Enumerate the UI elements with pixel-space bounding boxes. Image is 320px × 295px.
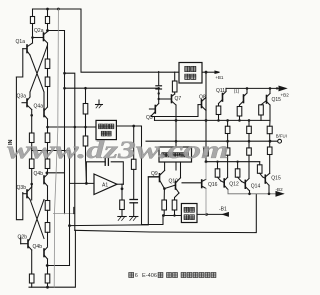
resistor R6a — [45, 133, 50, 143]
svg-text:Q12: Q12 — [229, 182, 239, 188]
box constant voltage supply — [179, 63, 202, 84]
node top rail dot 1 — [46, 8, 49, 11]
capacitor/diode chain x158.7 — [158, 72, 160, 86]
box output protection — [181, 204, 197, 223]
node top rail dot 2 — [57, 8, 60, 11]
svg-text:E-406: E-406 — [142, 273, 157, 279]
resistor R18 x261 — [259, 105, 264, 115]
wire op-amp input — [70, 182, 94, 184]
wire -B2 rail y193.8 — [228, 190, 278, 194]
transistor Q9 — [159, 174, 161, 182]
wire bus A — [64, 31, 66, 214]
resistor R4a — [45, 77, 50, 87]
svg-text:Q11: Q11 — [216, 88, 225, 94]
svg-text:Q14: Q14 — [251, 184, 261, 190]
transistor Q1b — [43, 249, 45, 257]
resistor R22 x237.6 — [236, 161, 238, 163]
wire op-amp output — [117, 183, 123, 185]
resistor R23 x259.7 — [259, 162, 261, 165]
wire box out — [116, 126, 163, 225]
box protection sampling — [159, 147, 192, 162]
wire top rail — [33, 9, 180, 72]
resistor R11 — [131, 159, 136, 169]
node Q2a collector — [46, 29, 49, 32]
wire mid rail y120.4 — [155, 119, 271, 121]
capacitor C1 feedback — [104, 158, 106, 165]
wire to box4 — [163, 215, 181, 217]
node +B1 arrow — [215, 71, 220, 73]
resistor R10 below node — [83, 136, 88, 146]
wire bus C x75.5 — [65, 73, 75, 230]
transistor Q7 — [171, 95, 173, 103]
wire emitter junction to bus B — [47, 265, 69, 267]
transistor Q1a — [26, 45, 28, 53]
transistor Q3a — [26, 99, 28, 107]
wire feedback — [86, 162, 105, 184]
svg-text:B/FUI: B/FUI — [276, 133, 287, 138]
resistor R17 x239.5 — [239, 105, 241, 107]
wire output rail y141 — [146, 140, 278, 142]
box bias network — [96, 120, 116, 139]
svg-text:Q3a: Q3a — [17, 94, 27, 100]
node OUTPUT terminal — [278, 139, 282, 143]
resistor R15 — [175, 193, 180, 200]
wire x206 chain — [204, 148, 209, 156]
wire bus B — [69, 151, 71, 266]
resistor R13 x174.7 — [174, 72, 176, 81]
transistor Q11 — [222, 94, 224, 102]
wire bottom rail — [29, 230, 75, 287]
wire x206 vertical top — [205, 72, 207, 148]
transistor Q12 — [223, 179, 225, 187]
wire mid rail — [31, 143, 33, 160]
svg-text:Q1a: Q1a — [16, 39, 26, 45]
resistor R7b — [29, 274, 34, 283]
resistor R9 (x85) — [85, 88, 87, 103]
svg-text:Q4b: Q4b — [33, 244, 43, 250]
resistor R12 — [120, 200, 125, 210]
ground mid — [98, 100, 100, 105]
transistor Q13 — [243, 95, 245, 103]
svg-text:www.dz3w.com: www.dz3w.com — [7, 137, 229, 164]
node input junction — [15, 144, 17, 146]
resistor R19 x227.6 upper — [227, 120, 229, 126]
wire +B1 rail y72 (right) — [202, 71, 215, 73]
resistor R2a — [47, 9, 49, 17]
resistor R3b — [45, 201, 50, 211]
resistor R6b — [45, 159, 50, 169]
svg-text:+B2: +B2 — [281, 92, 290, 97]
resistor R5b — [29, 159, 34, 169]
transistor Q16 — [201, 180, 203, 188]
transistor Q8 — [201, 100, 203, 108]
svg-text:-B2: -B2 — [276, 187, 284, 192]
wire Q7 emitter down — [175, 105, 177, 147]
resistor R20b x249 lower — [247, 148, 252, 155]
svg-text:Q9: Q9 — [151, 171, 158, 177]
wire Q1a base to input bus — [16, 49, 22, 77]
resistor R8b — [45, 274, 50, 283]
resistor R5a — [29, 133, 34, 143]
resistor R20 x249 upper — [248, 120, 250, 126]
resistor R21 x217.5 — [216, 161, 218, 163]
ground C2 — [130, 216, 138, 218]
ground R12 — [118, 216, 126, 218]
wire rail y230.3 — [75, 194, 256, 232]
svg-text:Q7: Q7 — [175, 96, 182, 102]
wire x133.7 down — [133, 126, 135, 159]
wire input bus — [16, 77, 22, 220]
wire Q4b base rail — [47, 172, 65, 174]
svg-text:Q2a: Q2a — [34, 28, 44, 34]
resistor R4b — [45, 223, 50, 233]
wire Q4a emitter — [47, 119, 49, 133]
wire box3 top — [175, 141, 177, 147]
transistor Q5 — [154, 106, 156, 114]
wire box4 to -B1 — [197, 213, 228, 215]
transistor Q4b — [43, 176, 45, 184]
svg-text:-B1: -B1 — [219, 207, 227, 213]
svg-text:Q4b: Q4b — [34, 171, 44, 177]
resistor R1a — [32, 9, 34, 17]
op-amp A1 — [94, 174, 117, 195]
transistor Q15t — [266, 96, 268, 104]
svg-text:Q15: Q15 — [272, 97, 282, 103]
wire Q5 to base rail — [159, 98, 172, 100]
caption — [129, 273, 216, 280]
wire bus D gray — [54, 9, 58, 287]
svg-text:(1): (1) — [234, 89, 240, 94]
transistor Q4a — [43, 109, 45, 117]
transistor Q15 — [264, 175, 266, 183]
resistor R16 x218.5 — [218, 104, 220, 107]
wire Q3a emitter — [31, 110, 33, 134]
wire +B2 rail y88.5 — [65, 87, 159, 89]
resistor R24 x269.7 lower — [267, 147, 272, 155]
wire cross couple X2 — [30, 200, 44, 239]
fuse x270 — [267, 126, 272, 134]
transistor Q2a — [43, 33, 45, 41]
svg-text:+B1: +B1 — [215, 75, 224, 80]
resistor R14 — [163, 187, 166, 190]
svg-text:Q3b: Q3b — [17, 185, 27, 191]
wire y162.5 — [206, 161, 260, 163]
svg-text:6: 6 — [135, 273, 138, 279]
resistor R3a — [45, 59, 50, 69]
capacitor C2 — [130, 199, 137, 201]
svg-text:Q2b: Q2b — [18, 235, 28, 241]
node box feed — [46, 126, 49, 129]
resistor R19b x227.6 lower — [225, 148, 230, 155]
svg-text:Q10: Q10 — [169, 179, 179, 185]
transistor Q3b — [26, 190, 28, 198]
wire cross couple X1 — [30, 55, 44, 92]
transistor Q2b — [27, 240, 29, 248]
svg-text:A1: A1 — [102, 183, 108, 189]
wire Q8 base — [152, 105, 198, 117]
svg-text:Q15: Q15 — [271, 176, 281, 182]
svg-text:Q5: Q5 — [146, 115, 153, 121]
svg-text:Q8: Q8 — [199, 95, 206, 101]
svg-text:Q4a: Q4a — [34, 104, 44, 110]
transistor Q14 — [244, 180, 246, 188]
wire box3 bottom stubs — [175, 162, 177, 170]
transistor Q10 — [175, 182, 177, 190]
svg-text:Q16: Q16 — [208, 182, 218, 188]
wire to bus A — [48, 30, 65, 32]
wire rail y225.6 to Q9 — [70, 177, 160, 226]
wire Q2a emitter down — [47, 43, 49, 59]
wire gray link y213.6 — [53, 213, 74, 215]
